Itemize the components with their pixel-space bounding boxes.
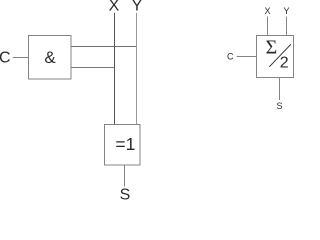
svg-text:&: & — [44, 48, 56, 67]
svg-text:Y: Y — [132, 0, 143, 14]
svg-text:Σ: Σ — [266, 37, 278, 59]
svg-text:2: 2 — [280, 55, 289, 72]
net X vertical wire — [114, 13, 116, 125]
wire Y stub into half-adder — [286, 17, 288, 37]
wire C into half-adder — [237, 56, 257, 58]
AND gate box (&) — [29, 36, 72, 80]
svg-text:S: S — [276, 101, 282, 111]
net Y vertical wire — [136, 13, 138, 125]
wire XOR output to S — [124, 165, 126, 187]
wire AND top pin to net Y — [71, 46, 137, 48]
svg-text:C: C — [0, 50, 11, 67]
wire AND bottom pin to net X — [71, 67, 115, 69]
svg-text:X: X — [264, 6, 270, 16]
svg-text:Y: Y — [283, 6, 289, 16]
svg-text:X: X — [109, 0, 120, 14]
XOR gate box (=1) — [105, 125, 141, 166]
svg-text:=1: =1 — [115, 134, 135, 154]
wire C to AND gate — [13, 57, 29, 59]
wire S out of half-adder — [279, 78, 281, 101]
half-adder symbol box (Sigma/2) — [257, 36, 294, 78]
slash divider — [269, 44, 291, 67]
svg-text:S: S — [120, 187, 131, 201]
svg-text:C: C — [227, 52, 234, 62]
wire X stub into half-adder — [267, 17, 269, 37]
